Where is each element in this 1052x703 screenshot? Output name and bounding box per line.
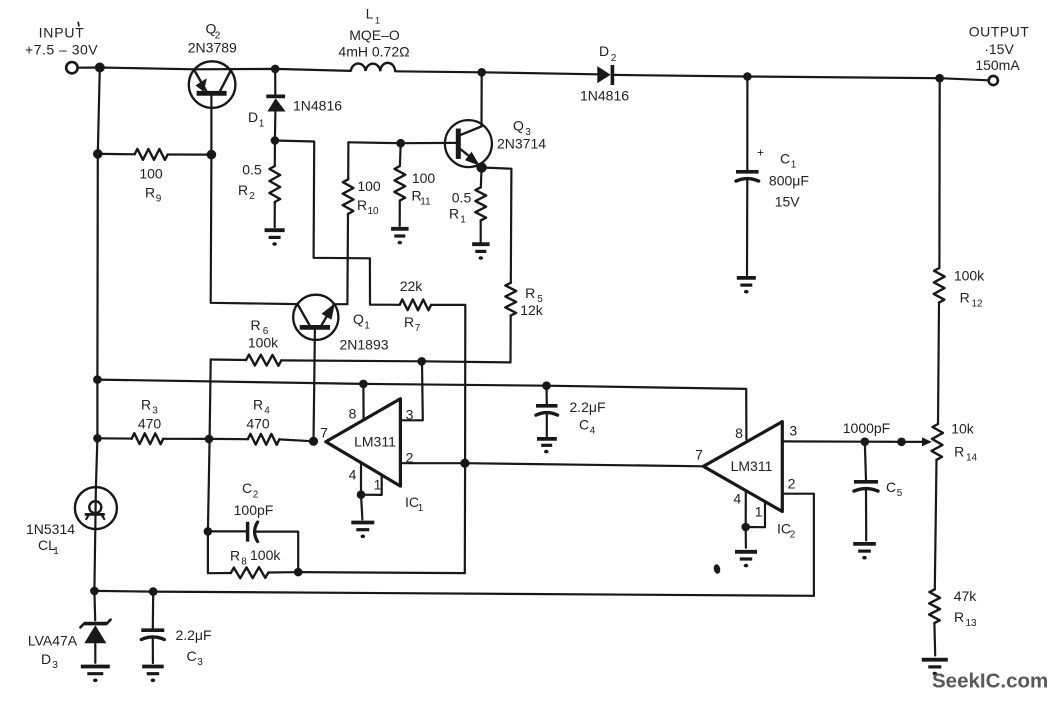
svg-text:1: 1 xyxy=(375,16,380,27)
node CL1 bottom junction xyxy=(90,587,99,596)
svg-text:1: 1 xyxy=(374,477,382,493)
svg-text:3: 3 xyxy=(52,660,58,671)
pin 2 IC2 xyxy=(782,476,814,596)
svg-text:1: 1 xyxy=(791,160,797,171)
pin 4 IC2 xyxy=(733,491,745,528)
svg-text:4: 4 xyxy=(590,426,596,437)
capacitor C1 800uF 15V xyxy=(736,77,809,276)
inductor L1 xyxy=(338,7,409,72)
svg-text:R: R xyxy=(960,290,970,306)
zener D3 LVA47A xyxy=(28,591,111,671)
svg-text:1N4816: 1N4816 xyxy=(293,97,342,113)
svg-text:D: D xyxy=(599,43,609,59)
svg-text:3: 3 xyxy=(406,407,414,423)
node R12 top junction xyxy=(935,74,944,83)
node IC1 pin8 junction xyxy=(359,380,368,389)
node R9 left junction xyxy=(93,149,103,159)
wire left rail xyxy=(94,68,99,591)
resistor R12 100k xyxy=(934,268,985,310)
svg-text:7: 7 xyxy=(320,425,328,441)
ground R11 xyxy=(391,229,409,245)
pin 2 IC1 xyxy=(400,450,465,466)
transistor Q3 2N3714 xyxy=(445,72,546,167)
wire Q1 emitter down to pin7 xyxy=(314,330,315,442)
svg-text:2.2μF: 2.2μF xyxy=(175,627,211,643)
wire top rail Q2 to L1 xyxy=(194,69,351,71)
pin 1 IC1 xyxy=(361,475,382,495)
svg-text:Q: Q xyxy=(513,118,524,134)
svg-text:0.5: 0.5 xyxy=(452,190,472,206)
svg-text:22k: 22k xyxy=(400,278,424,294)
ground R13 xyxy=(922,660,948,676)
pin 8 IC1 xyxy=(349,384,364,422)
op-amp IC1 LM311 xyxy=(326,399,401,486)
svg-text:·15V: ·15V xyxy=(984,41,1014,57)
node IC1 pin4 junction xyxy=(357,490,366,499)
ground IC2 xyxy=(735,521,796,568)
wire R6 left down to R8 xyxy=(208,360,231,574)
svg-text:11: 11 xyxy=(420,197,431,208)
wire R13 to ground xyxy=(933,623,936,655)
svg-text:LM311: LM311 xyxy=(354,434,396,450)
svg-text:LM311: LM311 xyxy=(731,458,773,474)
pin 7 IC1 xyxy=(309,425,328,446)
node input junction xyxy=(95,63,105,73)
svg-text:0.5: 0.5 xyxy=(242,162,262,178)
svg-text:4: 4 xyxy=(349,467,357,483)
svg-text:1N4816: 1N4816 xyxy=(580,88,629,104)
svg-text:100: 100 xyxy=(139,165,163,181)
svg-text:8: 8 xyxy=(349,406,357,422)
resistor R10 100 xyxy=(343,142,381,304)
svg-text:800μF: 800μF xyxy=(769,172,809,188)
svg-text:MQE–O: MQE–O xyxy=(349,27,400,43)
svg-text:14: 14 xyxy=(966,453,978,464)
node R9 right junction xyxy=(207,150,217,160)
svg-text:10k: 10k xyxy=(951,421,975,437)
svg-text:8: 8 xyxy=(735,425,743,441)
svg-text:2N1893: 2N1893 xyxy=(339,337,388,353)
wire Q3 emitter to R5 top xyxy=(482,168,512,283)
svg-text:47k: 47k xyxy=(954,588,978,604)
svg-text:D: D xyxy=(248,109,258,125)
wire IC1 pin2 to IC2 pin7 xyxy=(465,463,704,466)
svg-text:SeekIC.com: SeekIC.com xyxy=(932,670,1048,693)
diode D1 1N4816 xyxy=(248,69,342,141)
wire R14 to R13 xyxy=(935,460,937,590)
svg-text:+7.5 – 30V: +7.5 – 30V xyxy=(25,41,98,57)
wire top rail L1 to D2 xyxy=(395,71,597,74)
svg-text:4: 4 xyxy=(733,491,741,507)
svg-text:Q: Q xyxy=(353,311,364,327)
resistor R13 47k xyxy=(929,588,977,629)
svg-text:+: + xyxy=(757,146,764,160)
svg-text:1: 1 xyxy=(460,215,466,226)
svg-text:R: R xyxy=(238,182,248,198)
resistor R1 0.5 xyxy=(449,168,486,242)
wire R10 top to Q3 base xyxy=(348,141,455,144)
wire top rail D2 to output xyxy=(612,75,988,80)
svg-text:9: 9 xyxy=(156,194,162,205)
node D1 top junction xyxy=(271,65,280,74)
node pin2 junction xyxy=(460,459,469,468)
output terminal xyxy=(969,24,1030,86)
ground C3 xyxy=(142,667,164,683)
svg-text:8: 8 xyxy=(241,557,247,568)
svg-text:470: 470 xyxy=(246,416,270,432)
svg-text:R: R xyxy=(141,397,151,413)
svg-text:2: 2 xyxy=(249,191,255,202)
node Q3 collector junction xyxy=(477,68,486,77)
svg-text:12: 12 xyxy=(971,299,983,310)
svg-text:7: 7 xyxy=(695,447,703,463)
node C4 junction xyxy=(542,381,551,390)
stray mark xyxy=(713,564,721,575)
svg-text:1: 1 xyxy=(364,321,370,332)
svg-text:15V: 15V xyxy=(775,194,801,210)
node Q3 emitter junction xyxy=(476,162,486,172)
wire Q2 base down xyxy=(210,96,212,155)
resistor R2 0.5 xyxy=(238,141,280,228)
svg-text:L: L xyxy=(366,7,374,22)
node C1 top junction xyxy=(743,72,752,81)
transistor Q1 2N1893 xyxy=(293,295,389,353)
wire D1 junction to R7 left xyxy=(275,141,400,305)
op-amp IC2 LM311 xyxy=(703,422,782,512)
node left rail upper junction xyxy=(93,375,102,384)
resistor R7 22k xyxy=(400,278,431,334)
capacitor C5 1000pF xyxy=(843,420,903,540)
svg-text:100k: 100k xyxy=(954,268,985,284)
svg-text:2: 2 xyxy=(611,53,617,64)
svg-text:100k: 100k xyxy=(250,547,281,563)
wire R7 right down to R8 right xyxy=(431,305,465,573)
resistor R6 100k xyxy=(211,317,511,366)
svg-text:C: C xyxy=(579,417,589,433)
wire right rail top xyxy=(938,78,940,268)
svg-text:100: 100 xyxy=(412,170,436,186)
node wiper wire junction xyxy=(897,438,906,447)
capacitor C2 100pF xyxy=(208,480,298,568)
svg-text:12k: 12k xyxy=(520,302,544,318)
svg-text:1: 1 xyxy=(418,503,424,514)
svg-text:150mA: 150mA xyxy=(975,57,1020,73)
pin 8 IC2 xyxy=(735,425,743,441)
node R3 R4 junction xyxy=(205,435,214,444)
wire R8 right to pin2 vertical xyxy=(298,572,465,573)
svg-text:13: 13 xyxy=(965,618,977,629)
svg-text:D: D xyxy=(41,651,51,667)
svg-text:2: 2 xyxy=(253,490,259,501)
node C3 top junction xyxy=(149,587,158,596)
svg-text:4mH 0.72Ω: 4mH 0.72Ω xyxy=(338,44,409,60)
node R8 right junction xyxy=(294,568,303,577)
ground IC1 xyxy=(351,494,423,538)
ground C5 xyxy=(853,544,876,560)
resistor R9 100 xyxy=(102,149,207,205)
ground D3 xyxy=(81,667,110,683)
svg-text:C: C xyxy=(187,648,197,664)
svg-text:INPUT: INPUT xyxy=(39,25,85,41)
svg-text:2: 2 xyxy=(790,530,796,541)
svg-text:1000pF: 1000pF xyxy=(843,420,890,436)
watermark SeekIC.com xyxy=(932,670,1048,693)
svg-text:3: 3 xyxy=(789,423,797,439)
current limiter CL1 1N5314 xyxy=(26,487,117,557)
svg-text:C: C xyxy=(886,479,896,495)
svg-text:7: 7 xyxy=(415,323,421,334)
node R11 top junction xyxy=(396,139,405,148)
svg-text:C: C xyxy=(242,480,252,496)
pin 1 IC2 xyxy=(746,502,765,527)
node left rail lower junction xyxy=(93,434,102,443)
svg-text:1: 1 xyxy=(755,504,763,520)
pin 7 IC2 xyxy=(695,447,703,463)
svg-text:OUTPUT: OUTPUT xyxy=(969,24,1030,40)
ground R2 xyxy=(265,230,285,246)
wire R10 bottom to Q1 collector xyxy=(334,303,347,306)
node C2 left junction xyxy=(204,527,213,536)
svg-text:2.2μF: 2.2μF xyxy=(569,399,605,415)
svg-text:2N3789: 2N3789 xyxy=(188,40,237,56)
wire top rail input to Q2 xyxy=(78,68,194,70)
svg-text:R: R xyxy=(954,444,964,460)
capacitor C4 2.2uF xyxy=(536,386,606,454)
input terminal xyxy=(25,22,98,73)
svg-text:R: R xyxy=(954,609,964,625)
wire R12 to R14 xyxy=(938,303,939,424)
node C5 top junction xyxy=(861,437,870,446)
svg-text:1: 1 xyxy=(53,546,59,557)
svg-text:R: R xyxy=(145,185,155,201)
potentiometer R14 10k xyxy=(932,421,978,464)
svg-text:R: R xyxy=(449,206,459,222)
node pin3 top junction xyxy=(417,357,426,366)
svg-text:R: R xyxy=(253,397,263,413)
node D1 bottom junction xyxy=(271,136,280,145)
pin 4 IC1 xyxy=(349,463,361,495)
ground R1 xyxy=(472,244,490,260)
resistor R4 470 xyxy=(209,397,314,445)
diode D2 1N4816 xyxy=(580,43,629,104)
svg-text:R: R xyxy=(525,285,535,301)
svg-text:1: 1 xyxy=(259,119,265,130)
svg-text:LVA47A: LVA47A xyxy=(28,633,78,649)
svg-text:100pF: 100pF xyxy=(234,502,274,518)
svg-text:100k: 100k xyxy=(248,334,279,350)
svg-text:5: 5 xyxy=(897,488,903,499)
svg-text:100: 100 xyxy=(357,178,381,194)
svg-text:R: R xyxy=(230,548,240,564)
wire Q2 base to Q1 base xyxy=(211,155,298,305)
wire bottom rail xyxy=(94,591,814,596)
svg-text:2N3714: 2N3714 xyxy=(497,136,546,152)
node IC2 pin4 junction xyxy=(741,523,750,532)
resistor R3 470 xyxy=(97,397,209,445)
svg-text:10: 10 xyxy=(367,206,379,217)
transistor Q2 2N3789 xyxy=(188,21,237,108)
wire to R14 wiper xyxy=(898,437,932,446)
svg-text:R: R xyxy=(357,197,367,213)
svg-text:1N5314: 1N5314 xyxy=(26,521,75,537)
resistor R5 12k xyxy=(505,283,543,363)
resistor R8 100k xyxy=(230,547,294,578)
svg-text:2: 2 xyxy=(788,476,796,492)
svg-text:R: R xyxy=(404,314,414,330)
capacitor C3 2.2uF xyxy=(141,592,211,668)
svg-text:470: 470 xyxy=(138,416,162,432)
pin 3 IC1 xyxy=(400,361,422,422)
svg-text:3: 3 xyxy=(197,657,203,668)
svg-text:C: C xyxy=(780,151,790,167)
wire long line to IC2 pin8 xyxy=(97,380,746,440)
pin 3 IC2 xyxy=(782,423,898,442)
resistor R11 100 xyxy=(394,143,435,226)
svg-text:R: R xyxy=(250,317,260,333)
svg-text:2: 2 xyxy=(406,450,414,466)
ground C1 xyxy=(737,278,756,294)
